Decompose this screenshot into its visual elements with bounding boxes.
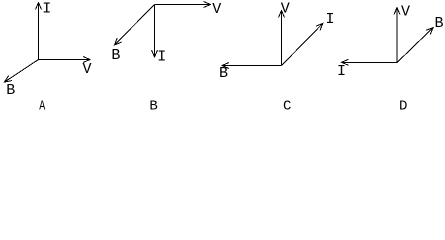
vector I arrow (diagram D, pointing left) (342, 59, 398, 65)
vector V arrow (diagram B, pointing right) (155, 2, 211, 8)
svg-text:C: C (283, 99, 291, 115)
vector B arrow (diagram C, pointing left) (222, 63, 282, 69)
svg-text:I: I (157, 49, 166, 66)
vector B arrow (diagram B, pointing down-left) (115, 5, 155, 46)
svg-text:I: I (326, 11, 335, 28)
vector B arrow (diagram A, pointing down-left) (5, 60, 39, 83)
svg-text:I: I (42, 1, 51, 18)
svg-text:V: V (401, 4, 410, 21)
svg-text:V: V (281, 1, 290, 18)
svg-text:V: V (83, 61, 92, 78)
vector I arrow (diagram C, pointing up-right) (282, 23, 323, 65)
svg-text:A: A (39, 99, 45, 115)
svg-text:B: B (111, 47, 120, 64)
svg-text:B: B (435, 15, 444, 32)
vector I arrow (diagram A, pointing up) (36, 3, 42, 60)
vector V arrow (diagram A, pointing right) (39, 57, 91, 63)
vector I arrow (diagram B, pointing down) (152, 5, 158, 58)
svg-text:I: I (337, 63, 346, 80)
svg-text:V: V (212, 1, 221, 18)
svg-text:D: D (399, 99, 407, 115)
svg-text:B: B (6, 82, 15, 99)
vector V arrow (diagram C, pointing up) (279, 11, 285, 66)
svg-text:B: B (149, 99, 157, 115)
vector B arrow (diagram D, pointing up-right) (397, 28, 433, 63)
vector V arrow (diagram D, pointing up) (394, 8, 400, 63)
svg-text:B: B (219, 65, 228, 82)
